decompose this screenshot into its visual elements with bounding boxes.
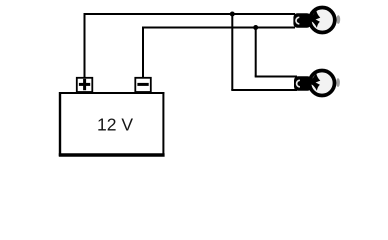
lamp L1 (top bulb)	[293, 8, 340, 33]
wire vertical from node B down	[255, 28, 257, 77]
wire from battery + up	[84, 14, 86, 78]
wire vertical from node A down	[231, 14, 233, 90]
wire horizontal to lamp L2 top terminal	[255, 76, 297, 78]
node B junction dot	[253, 25, 258, 30]
wire top horizontal to lamp L1	[84, 13, 296, 15]
node A junction dot	[230, 12, 235, 17]
battery - terminal	[135, 78, 151, 92]
wire second horizontal to lamp L1	[142, 27, 295, 29]
wire horizontal to lamp L2 bottom terminal	[231, 89, 297, 91]
battery BT1 body	[59, 92, 165, 156]
lamp L2 (bottom bulb)	[294, 71, 340, 96]
battery + terminal	[77, 78, 93, 92]
svg-text:12 V: 12 V	[97, 115, 133, 135]
wire from battery - up	[142, 28, 144, 79]
